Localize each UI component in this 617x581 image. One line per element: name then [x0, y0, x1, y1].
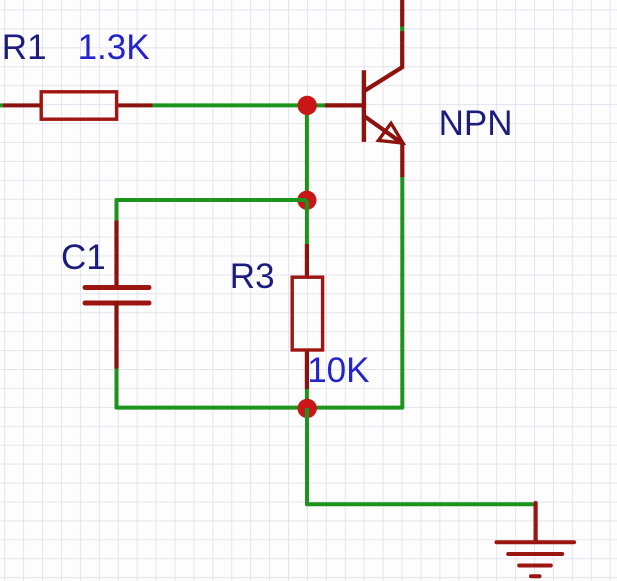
junction node base (dot 1) — [298, 96, 317, 115]
transistor Q1 NPN — [325, 31, 403, 178]
label R1 — [2, 28, 47, 67]
value NPN — [439, 104, 513, 143]
wire net into R1 left edge — [0, 103, 4, 107]
wire emitter net down and left to junction 3 — [307, 177, 402, 408]
wire C1 bottom to bottom rail — [117, 369, 308, 408]
junction node 2 — [297, 191, 316, 210]
wire junction 2 to C1 top — [117, 200, 307, 222]
wire base junction down to junction 2 — [305, 105, 309, 200]
label C1 — [61, 238, 106, 277]
resistor R1 — [3, 92, 153, 119]
wire junction 3 to ground — [307, 408, 536, 504]
junction node 3 — [298, 399, 317, 418]
wire junction 2 to R3 top — [305, 200, 309, 245]
wire R3 bottom to junction 3 — [305, 389, 309, 408]
ground — [497, 503, 575, 576]
wire pin from top edge — [400, 0, 404, 27]
wire R1 to base junction — [153, 103, 328, 107]
label R3 — [230, 257, 275, 296]
value 1.3K — [78, 28, 150, 67]
wire collector net stub — [400, 27, 404, 32]
value 10K — [307, 351, 369, 390]
resistor R3 — [292, 244, 322, 390]
capacitor C1 — [85, 221, 149, 370]
